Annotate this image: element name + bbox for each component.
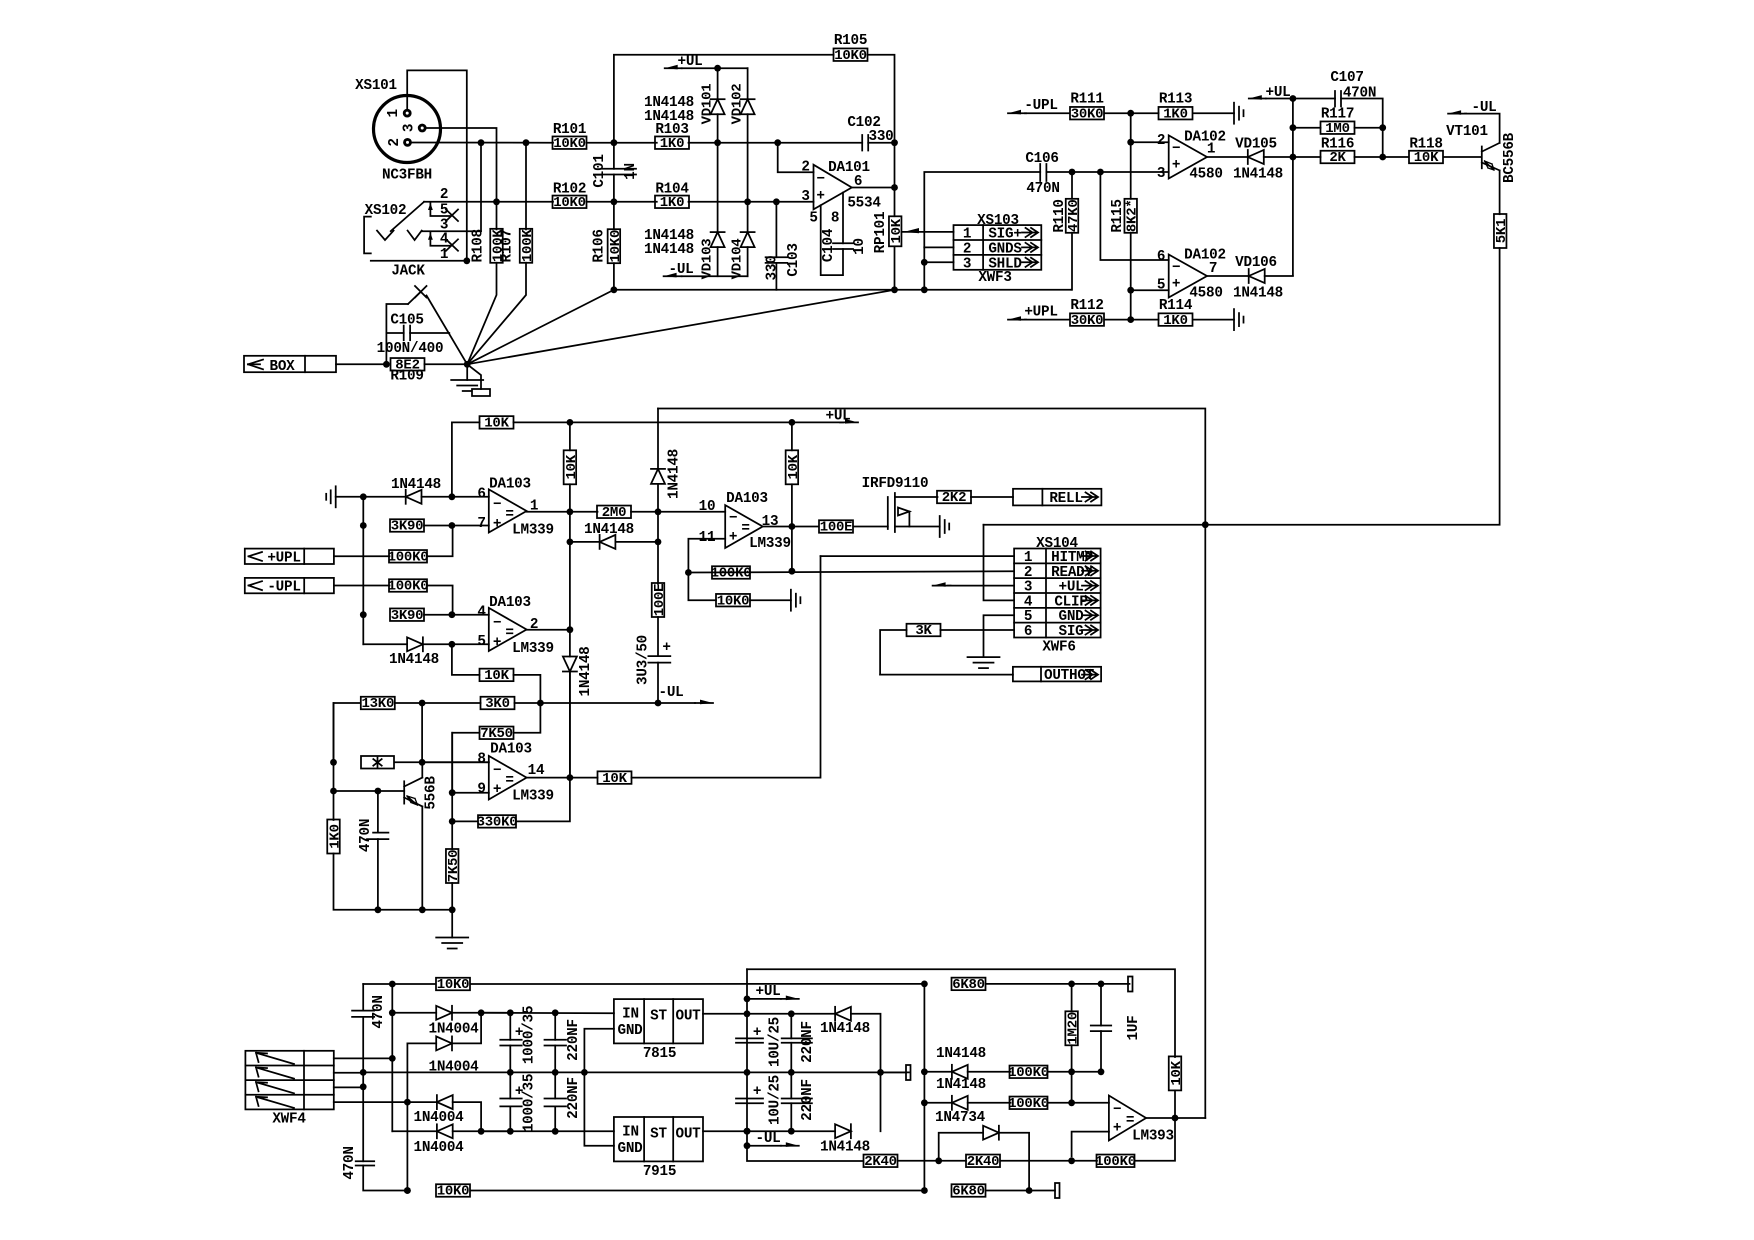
node pin7 node <box>449 522 456 529</box>
capacitor C102 value <box>869 129 894 145</box>
resistor 330K0 <box>477 815 518 831</box>
connector XS103 pin3 <box>963 256 971 272</box>
diode VD103 name <box>700 239 716 280</box>
node out1 <box>567 508 574 515</box>
svg-text:100K0: 100K0 <box>1095 1154 1136 1170</box>
wire R115 top lead <box>1130 142 1132 199</box>
connector XS101 label <box>355 78 397 94</box>
ground 10K0g <box>791 590 801 611</box>
node colA 6K80b <box>921 1187 928 1194</box>
diode D-pin6 <box>363 490 452 504</box>
capacitor 470Nmid name <box>358 819 374 852</box>
svg-text:SIG: SIG <box>1059 624 1084 640</box>
node 6K80a-1M20 <box>1068 981 1075 988</box>
flag RELL <box>1013 489 1101 507</box>
node out4-10Kc <box>789 523 796 530</box>
diode D-psb type <box>820 1140 870 1156</box>
wire 10Ka to +UL <box>514 421 844 423</box>
wire plus rail <box>481 1012 614 1014</box>
wire R105 left <box>614 55 834 143</box>
resistor 7K50v <box>446 849 462 883</box>
op-amp DA103a eq <box>505 507 513 523</box>
node diode-or <box>1290 154 1297 161</box>
wire R115 col upper <box>1130 113 1132 142</box>
wire +UL col <box>747 969 863 1161</box>
capacitor C103 <box>766 202 788 290</box>
connector XS104 label <box>1036 536 1078 552</box>
node plusrail cap1 <box>507 1009 514 1016</box>
wire -UL to collector <box>1465 114 1500 143</box>
svg-text:6K80: 6K80 <box>952 977 985 993</box>
wire SHLD to gnd col <box>924 261 953 263</box>
wire +UPL to R112 <box>1025 319 1070 321</box>
resistor R104 <box>655 195 689 211</box>
svg-text:10K: 10K <box>484 416 509 432</box>
wire row2 to pin3 <box>689 201 814 203</box>
node LM393 out <box>1172 1115 1179 1122</box>
capacitor 220NFd <box>782 1072 812 1131</box>
resistor R105 <box>834 48 868 64</box>
node minus rail d3 <box>478 1128 485 1135</box>
wire pin9 col <box>451 733 453 849</box>
op-amp DA101 plus <box>816 189 824 205</box>
flag +UL xs104 <box>933 582 1015 587</box>
svg-text:−: − <box>493 616 501 632</box>
node fbrow right <box>655 539 662 546</box>
wire ast right <box>395 761 489 763</box>
node 3K90a left <box>360 522 367 529</box>
capacitor C107 value <box>1343 86 1376 102</box>
svg-text:+: + <box>1172 277 1180 293</box>
node out2 <box>567 626 574 633</box>
node pin9 node <box>449 789 456 796</box>
resistor R112 label <box>1070 298 1103 314</box>
resistor R113 <box>1159 106 1193 122</box>
diode D-lm1 type <box>0 0 1 1</box>
svg-text:DA102: DA102 <box>1184 130 1226 146</box>
node 7915 out <box>744 1128 751 1135</box>
wire snub top <box>363 983 392 985</box>
wire out2 col <box>569 542 571 630</box>
op-amp DA103a type <box>512 523 554 539</box>
op-amp DA102 unit2 <box>1169 255 1207 298</box>
svg-text:LM339: LM339 <box>749 536 791 552</box>
connector XS102 pin4 switch <box>428 233 458 251</box>
connector XS104 pin2 <box>1024 565 1098 581</box>
svg-text:R112: R112 <box>1070 298 1103 314</box>
node 3K90b left <box>360 611 367 618</box>
capacitor 1UF name <box>1126 1016 1142 1041</box>
regulator 7915 name <box>643 1164 676 1180</box>
svg-text:10K0: 10K0 <box>608 230 624 263</box>
wire 3K90a right <box>424 525 452 527</box>
svg-text:1N4148: 1N4148 <box>391 477 441 493</box>
svg-text:2: 2 <box>387 138 403 146</box>
resistor R101 <box>553 136 587 152</box>
wire pin11 stub <box>688 539 725 573</box>
wire VT101 emitter to 5K1 <box>1499 170 1501 214</box>
wire DA103a out <box>527 511 598 513</box>
wire row1 to pin2 drop <box>689 142 778 144</box>
svg-text:C101: C101 <box>592 154 608 187</box>
wire -UPL row <box>334 585 390 587</box>
wire 10K0g right <box>750 599 791 601</box>
wire R112-R114 <box>1105 319 1159 321</box>
svg-text:−: − <box>493 497 501 513</box>
op-amp DA103c name <box>490 742 532 758</box>
svg-text:NC3FBH: NC3FBH <box>382 168 432 184</box>
svg-text:1N4148: 1N4148 <box>1233 167 1283 183</box>
resistor R118 <box>1409 150 1443 166</box>
wire C102 to output col <box>868 142 894 144</box>
svg-text:30K0: 30K0 <box>1071 313 1104 329</box>
node minus in <box>1068 1099 1075 1106</box>
diode VD-1N4004a <box>392 1006 510 1020</box>
svg-text:2: 2 <box>530 617 538 633</box>
wire 10Kfb right <box>514 675 541 703</box>
diode D-pin5 <box>407 637 452 651</box>
resistor 3K <box>907 623 941 639</box>
node fbrow left <box>567 539 574 546</box>
op-amp DA102b pin6 label <box>1157 249 1165 265</box>
wire 5K1 down to bus <box>1205 248 1499 525</box>
resistor 10Kb <box>564 450 580 484</box>
op-amp DA103c pin8 label <box>477 752 485 768</box>
resistor 100E <box>819 520 853 536</box>
wire R113 to gnd <box>1193 112 1234 114</box>
connector XS101 type NC3FBH <box>382 168 432 184</box>
flag OUTHOT <box>1013 667 1101 684</box>
svg-text:5K1: 5K1 <box>1494 219 1510 243</box>
wire 1K0v bottom <box>334 854 378 910</box>
svg-text:C105: C105 <box>390 313 423 329</box>
wire bus CLIP <box>984 524 1206 526</box>
wire jack tip diagonal to pin2 line <box>391 202 424 231</box>
svg-text:=: = <box>1126 1113 1134 1129</box>
node R106 bottom on gnd line <box>611 286 618 293</box>
node 7K50v gnd <box>449 906 456 913</box>
svg-text:2: 2 <box>801 160 809 176</box>
diode D-lm1 label <box>936 1046 986 1062</box>
svg-text:4580: 4580 <box>1189 167 1222 183</box>
op-amp DA103b minus <box>493 616 501 632</box>
node output col top <box>891 139 898 146</box>
node 10Kc top <box>789 419 796 426</box>
wire C106 branch <box>924 172 1040 247</box>
svg-text:1N4148: 1N4148 <box>667 449 683 499</box>
node pin2 drop <box>774 139 781 146</box>
node ac1-diode1 <box>389 1009 396 1016</box>
node SHLD junction <box>921 259 928 266</box>
wire output to RP101 <box>894 188 896 217</box>
resistor R117 label <box>1321 107 1354 123</box>
wire XWF4 pin2 row <box>334 1072 363 1074</box>
wire GNDS to gnd col <box>924 246 953 248</box>
svg-text:1K0: 1K0 <box>660 195 684 211</box>
svg-text:1M20: 1M20 <box>1066 1012 1082 1045</box>
svg-text:1N: 1N <box>623 163 639 180</box>
wire 13K0 row left <box>334 703 361 762</box>
wire fbrow left <box>570 541 600 543</box>
wire HITMP row <box>821 555 1015 557</box>
diode D-lm2 label <box>936 1077 986 1093</box>
svg-text:1N4148: 1N4148 <box>578 647 594 697</box>
diode D-1N4734 <box>939 1126 1029 1191</box>
op-amp DA103b pin5 label <box>477 634 485 650</box>
svg-text:R111: R111 <box>1070 92 1103 108</box>
svg-text:7: 7 <box>477 516 485 532</box>
op-amp DA103d plus <box>729 530 737 546</box>
capacitor 220NFb <box>545 1072 567 1131</box>
svg-text:=: = <box>505 507 513 523</box>
wire ac1 col <box>391 984 393 1131</box>
diode D-or2 type <box>578 647 594 697</box>
resistor 2K2 <box>937 490 971 506</box>
wire pin4 stub <box>452 614 489 616</box>
svg-text:47K0: 47K0 <box>1066 199 1082 232</box>
flag BOX <box>244 356 336 375</box>
node out1-diode col <box>655 508 662 515</box>
svg-text:4580: 4580 <box>1189 286 1222 302</box>
svg-text:1N4148: 1N4148 <box>389 652 439 668</box>
regulator 7815 box <box>614 999 703 1043</box>
op-amp DA103c type <box>512 789 554 805</box>
capacitor C103 value <box>765 256 781 281</box>
wire 10K0bot right <box>471 1190 924 1192</box>
capacitor 220NFd name <box>800 1079 816 1121</box>
wire R107 bottom lead <box>467 263 526 365</box>
capacitor C101 value <box>623 163 639 180</box>
regulator 7815 GND <box>618 1023 644 1039</box>
svg-text:+: + <box>493 635 501 651</box>
svg-text:=: = <box>505 626 513 642</box>
connector XS103 pin1 <box>963 227 971 243</box>
resistor 3K0 <box>481 696 515 712</box>
svg-text:10K: 10K <box>484 668 509 684</box>
resistor R110 <box>1066 199 1082 233</box>
op-amp DA103 unit1 <box>489 489 527 532</box>
resistor 100K0b <box>388 579 429 595</box>
resistor R108 <box>490 229 506 263</box>
connector XS102 jack sleeve line <box>371 260 467 262</box>
node 6K80a-1UF <box>1098 981 1105 988</box>
node colA d1 <box>921 1068 928 1075</box>
wire BOX to R109 <box>336 363 386 365</box>
wire R115 bottom lead <box>1130 233 1132 320</box>
op-amp DA103 unit3 <box>489 756 527 800</box>
svg-text:10K0: 10K0 <box>717 593 750 609</box>
diode VD-1N4004b <box>407 1013 481 1051</box>
resistor 2K40b <box>966 1154 1000 1170</box>
node 6K80a left <box>921 981 928 988</box>
svg-text:R105: R105 <box>834 33 867 49</box>
resistor 100K0f <box>1095 1154 1136 1170</box>
svg-text:4: 4 <box>477 605 486 621</box>
svg-text:10K0: 10K0 <box>437 977 470 993</box>
wire 1M20 leads <box>1071 984 1073 1072</box>
svg-text:6: 6 <box>1157 249 1165 265</box>
resistor R107 <box>520 229 536 263</box>
resistor R109 <box>391 358 425 374</box>
svg-text:3K: 3K <box>915 623 932 639</box>
diode VD101 <box>711 68 725 143</box>
node row1 C101 <box>611 139 618 146</box>
resistor 2M0 <box>597 505 631 521</box>
wire 556B base col <box>421 703 423 762</box>
resistor R113 label <box>1159 92 1192 108</box>
svg-text:220NF: 220NF <box>800 1021 816 1063</box>
wire XLR pin3 to R108 column <box>427 128 497 202</box>
svg-text:2: 2 <box>1157 133 1165 149</box>
wire 100K0d right <box>1048 1071 1072 1073</box>
mosfet IRFD9110 label <box>862 476 929 492</box>
svg-text:556B: 556B <box>424 776 440 810</box>
svg-text:1K0: 1K0 <box>1163 313 1187 329</box>
wire jack tip row <box>424 201 553 203</box>
node row2 C101 <box>611 198 618 205</box>
svg-text:8K2*: 8K2* <box>1125 199 1141 232</box>
svg-text:CLIP: CLIP <box>1054 594 1087 610</box>
diode D-pin6 type <box>391 477 441 493</box>
capacitor 1000/35b name <box>522 1074 538 1132</box>
svg-text:ST: ST <box>650 1009 667 1025</box>
wire 2M0 right <box>631 511 725 513</box>
mosfet IRFD9110 <box>888 493 940 532</box>
svg-text:1N4004: 1N4004 <box>414 1110 465 1126</box>
svg-text:5: 5 <box>477 634 485 650</box>
connector XS103 GNDS <box>988 241 1038 257</box>
svg-text:2K40: 2K40 <box>967 1154 1000 1170</box>
svg-text:2K40: 2K40 <box>864 1154 897 1170</box>
connector XS102 ring contact <box>408 231 422 240</box>
node 220NFc top <box>788 1010 795 1017</box>
node R110 top <box>1069 169 1076 176</box>
wire XWF4 pin1 row <box>334 1057 393 1059</box>
capacitor 1UF <box>1091 984 1111 1072</box>
op-amp DA102b type <box>1189 286 1222 302</box>
svg-text:470N: 470N <box>342 1146 358 1179</box>
connector XWF4 name <box>272 1112 306 1128</box>
svg-text:LM339: LM339 <box>512 789 554 805</box>
op-amp DA103 unit2 <box>489 608 527 651</box>
resistor 7K50h <box>480 726 514 742</box>
wire left rail mid3 <box>333 791 335 820</box>
op-amp DA101 name <box>828 160 870 176</box>
svg-text:3U3/50: 3U3/50 <box>636 635 652 685</box>
svg-text:100E: 100E <box>652 584 668 617</box>
wire out3 col <box>569 672 571 778</box>
flag -UL mid <box>659 685 714 704</box>
node R115 col pin5 <box>1127 287 1134 294</box>
resistor R112 <box>1070 313 1104 329</box>
flag -UPL right <box>1008 98 1058 114</box>
svg-text:DA101: DA101 <box>828 160 870 176</box>
svg-text:5534: 5534 <box>847 196 881 212</box>
transistor VT101 label <box>1446 124 1488 140</box>
node 220NFd bot <box>788 1128 795 1135</box>
ground left mid <box>326 486 363 507</box>
wire 10K0top leads <box>392 983 924 985</box>
node RP101 bottom gnd <box>891 286 898 293</box>
resistor 1M20 <box>1065 1011 1081 1045</box>
svg-text:1N4734: 1N4734 <box>935 1110 986 1126</box>
op-amp DA102a pin2 label <box>1157 133 1165 149</box>
svg-text:1N4148: 1N4148 <box>644 109 694 125</box>
svg-text:+UL: +UL <box>756 984 781 1000</box>
svg-text:JACK: JACK <box>391 264 425 280</box>
flag -UL clamp <box>664 262 694 278</box>
connector XS102 type JACK <box>391 264 425 280</box>
wire DA102b out <box>1207 275 1249 277</box>
wire ac2 col <box>406 1043 408 1190</box>
node 220NFc mid <box>788 1069 795 1076</box>
svg-text:VD103: VD103 <box>700 239 716 280</box>
svg-text:6K80: 6K80 <box>952 1184 985 1200</box>
diode D-1N4734 label <box>935 1110 986 1126</box>
capacitor C107 <box>1335 91 1341 107</box>
node C103 tap <box>773 198 780 205</box>
node 2K40b-100K0 <box>1068 1157 1075 1164</box>
wire LM393 out <box>1146 1117 1205 1119</box>
svg-text:C103: C103 <box>786 243 802 276</box>
svg-text:XWF6: XWF6 <box>1042 640 1075 656</box>
svg-text:2: 2 <box>1024 565 1032 581</box>
ground R114 <box>1234 309 1244 330</box>
connector XS102 pin5 switch <box>428 203 458 221</box>
terminal bar 6K80a <box>1128 977 1133 992</box>
wire 556B emitter <box>421 806 423 909</box>
op-amp DA101 minus <box>816 172 824 188</box>
svg-text:470N: 470N <box>358 819 374 852</box>
diode VD102 <box>741 68 755 202</box>
wire 7815 out <box>703 1013 747 1015</box>
resistor 10Kc <box>786 450 802 484</box>
capacitor 10U/25a <box>736 1038 763 1042</box>
wire VD105 to R116 <box>1264 156 1321 158</box>
wire 2K40a-2K40b <box>898 1160 966 1162</box>
wire R106 leads <box>613 202 615 290</box>
resistor R101 label <box>553 122 586 138</box>
flag -UPL mid <box>245 578 334 596</box>
resistor R102 <box>553 195 587 211</box>
resistor R118 label <box>1409 137 1442 153</box>
connector XS104 pin6 <box>1024 624 1098 640</box>
wire 10Kb leads <box>569 422 571 511</box>
capacitor C101 label <box>592 154 608 187</box>
svg-text:14: 14 <box>528 763 545 779</box>
svg-text:SIG+: SIG+ <box>988 227 1021 243</box>
wire colA <box>923 984 925 1191</box>
wire -UL row <box>658 702 695 704</box>
node minusrail c2 <box>552 1128 559 1135</box>
svg-text:5: 5 <box>809 211 817 227</box>
op-amp DA103a pin6 label <box>477 487 485 503</box>
flag +UPL mid <box>245 549 334 567</box>
node plusrail cap2 <box>552 1009 559 1016</box>
resistor R107 label <box>500 229 516 262</box>
diode VD101 name <box>700 84 716 125</box>
op-amp DA102a name <box>1184 130 1226 146</box>
connector XS104 pin1 <box>1024 550 1098 566</box>
node n-inv node <box>1068 1068 1075 1075</box>
svg-text:1: 1 <box>963 227 971 243</box>
node plus rail d2 <box>478 1009 485 1016</box>
wire 7K50 left <box>452 733 479 793</box>
svg-text:+: + <box>1172 158 1180 174</box>
node ct row2 <box>360 1069 367 1076</box>
svg-text:−: − <box>1113 1102 1121 1118</box>
regulator 7915 ST <box>650 1127 667 1143</box>
